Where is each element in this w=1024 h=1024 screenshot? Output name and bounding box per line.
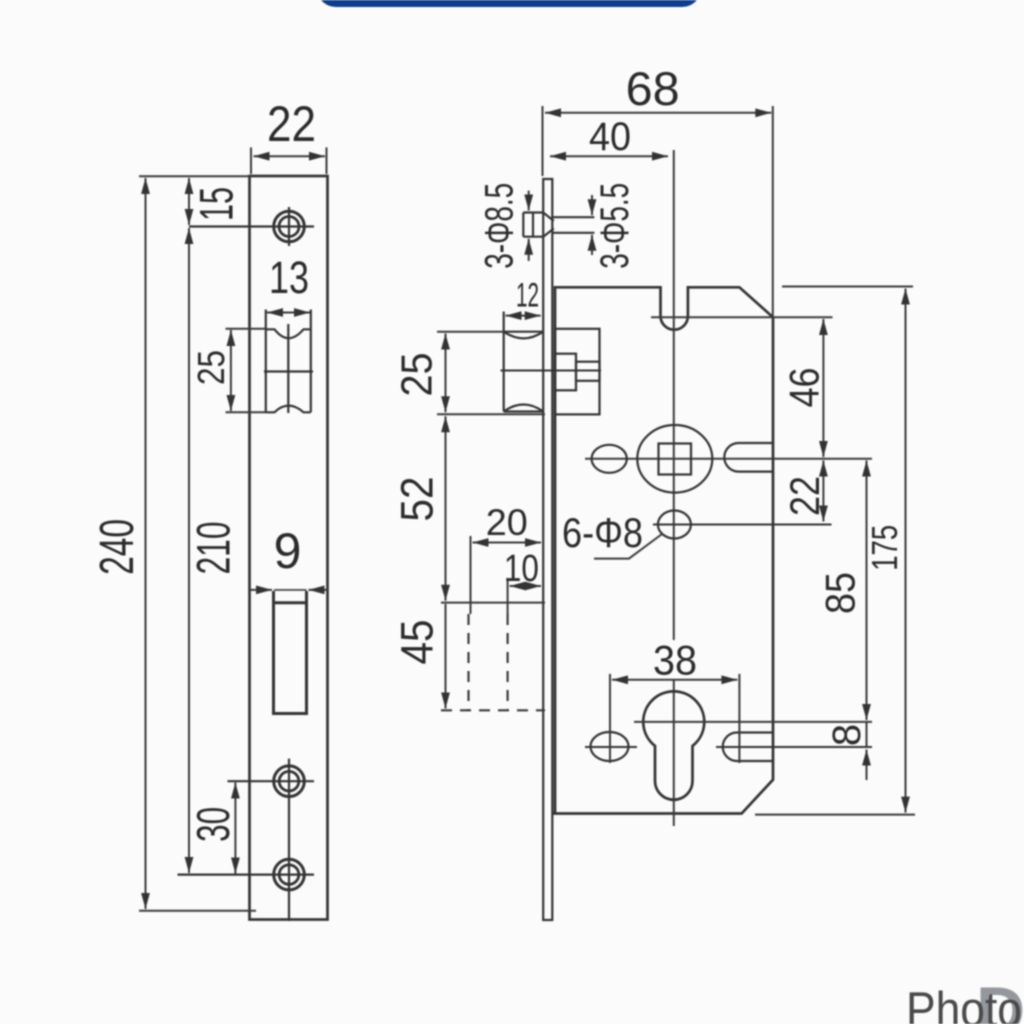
dim 22 top <box>251 147 327 174</box>
svg-text:240: 240 <box>91 519 144 575</box>
blue banner top <box>317 0 701 7</box>
faceplate edge strip (side view) <box>543 179 552 920</box>
svg-text:15: 15 <box>190 187 243 221</box>
top screw hole <box>189 207 314 246</box>
svg-text:85: 85 <box>817 572 864 614</box>
dim 9 arrows <box>251 589 329 591</box>
svg-text:8: 8 <box>825 724 869 746</box>
svg-text:9: 9 <box>274 523 302 579</box>
dim 10 <box>508 578 541 614</box>
dim 30 <box>234 783 236 874</box>
dim 175 <box>755 287 915 815</box>
svg-text:25: 25 <box>393 353 442 397</box>
dim 25 left <box>226 329 267 413</box>
euro cylinder hole <box>643 691 704 799</box>
dim 46 <box>651 317 833 457</box>
rectangular cutout <box>272 591 308 715</box>
dim 13 arrows <box>267 312 310 314</box>
dim 38 <box>610 674 739 763</box>
follower hub <box>637 425 712 493</box>
dim 20 <box>471 536 542 614</box>
spindle center line vertical <box>673 150 675 826</box>
dim 22 right <box>822 461 824 522</box>
svg-text:3-Φ5.5: 3-Φ5.5 <box>593 183 637 269</box>
dim 3-phi8.5 arrows <box>528 191 530 261</box>
latch slot cutout <box>264 310 313 414</box>
svg-text:45: 45 <box>392 620 443 665</box>
dim 3-phi5.5 arrows <box>591 195 593 255</box>
svg-text:25: 25 <box>191 350 233 385</box>
latch housing <box>501 329 602 415</box>
slot capsule upper <box>724 443 773 472</box>
svg-text:22: 22 <box>781 476 828 516</box>
svg-text:13: 13 <box>269 252 309 303</box>
bottom screw hole 1 <box>228 766 315 797</box>
dim 210 <box>188 228 190 873</box>
dim 15 <box>188 178 190 225</box>
6-phi8 hole <box>653 511 832 539</box>
svg-text:175: 175 <box>864 525 905 571</box>
svg-text:3-Φ8.5: 3-Φ8.5 <box>478 183 522 269</box>
countersunk hole section at strip <box>523 213 594 237</box>
faceplate outline <box>250 176 328 920</box>
latch bolt nose <box>504 312 544 412</box>
hidden pocket dashed lines <box>441 614 545 710</box>
dim 68 <box>543 106 773 317</box>
svg-text:10: 10 <box>504 548 539 590</box>
svg-text:46: 46 <box>781 368 828 408</box>
svg-text:12: 12 <box>516 277 539 315</box>
lock body outline <box>553 287 773 813</box>
svg-text:22: 22 <box>267 96 316 152</box>
bottom screw hole 2 <box>178 759 315 921</box>
svg-text:210: 210 <box>187 522 240 575</box>
dim 40 <box>550 155 668 157</box>
dim 45 <box>445 604 447 709</box>
dim 240 <box>139 176 256 911</box>
svg-text:52: 52 <box>392 477 443 522</box>
svg-text:38: 38 <box>653 637 697 684</box>
svg-text:20: 20 <box>486 502 528 543</box>
svg-text:68: 68 <box>626 62 680 115</box>
svg-text:6-Φ8: 6-Φ8 <box>562 509 643 556</box>
dim 12 <box>506 315 541 317</box>
svg-text:30: 30 <box>187 807 239 842</box>
dim 52 <box>441 416 545 602</box>
pillar ellipse upper <box>592 445 627 473</box>
slot capsule lower <box>716 733 872 762</box>
dim 25 right <box>437 332 545 415</box>
follower center line horizontal <box>585 458 872 460</box>
dim 85 <box>866 461 868 721</box>
pillar ellipse lower <box>585 732 637 761</box>
dim 8 <box>866 750 868 781</box>
svg-text:Photo: Photo <box>906 983 1022 1024</box>
svg-text:40: 40 <box>589 115 631 159</box>
